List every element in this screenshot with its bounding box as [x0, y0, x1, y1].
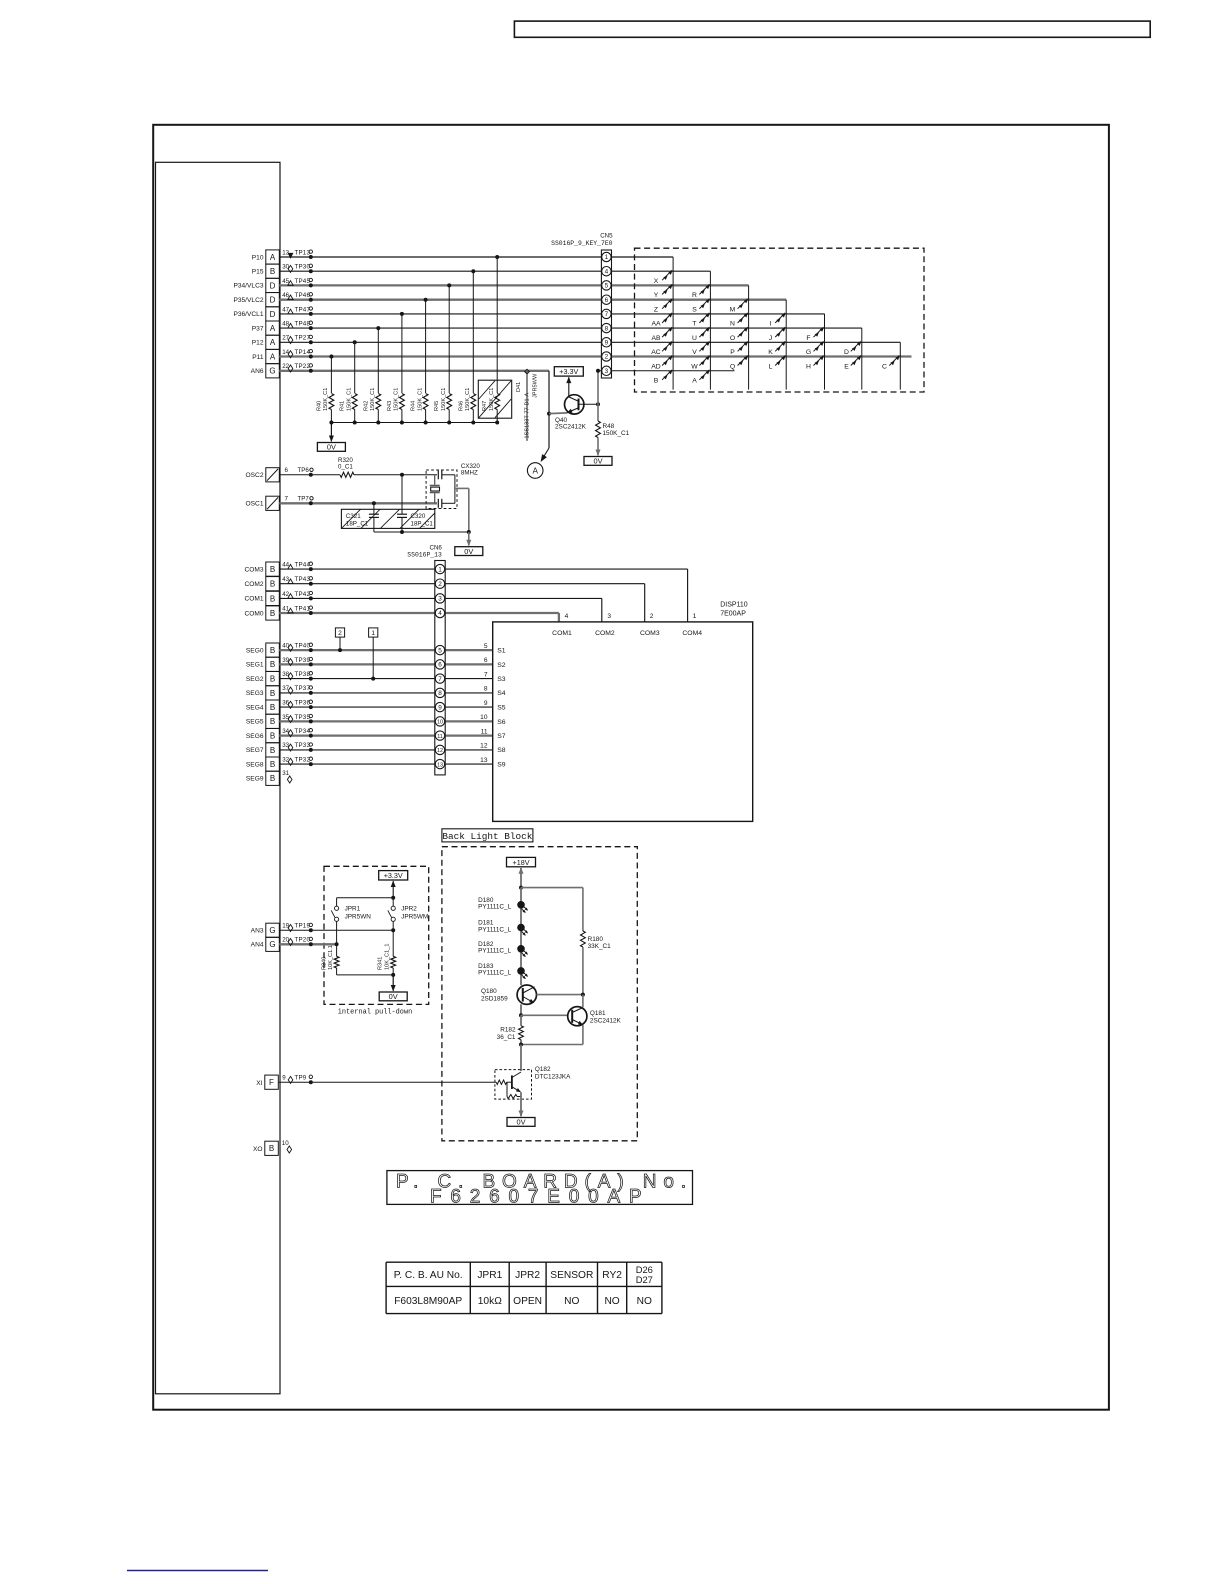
resistor R40 150K_C1 — [329, 394, 334, 410]
key matrix dashed box — [635, 248, 925, 392]
svg-text:X: X — [654, 278, 659, 285]
svg-text:8: 8 — [605, 325, 609, 332]
svg-text:PY1111C_L: PY1111C_L — [478, 904, 511, 911]
svg-text:COM0: COM0 — [244, 610, 263, 617]
CN6 pin 11 — [435, 731, 444, 740]
svg-text:TP48: TP48 — [295, 321, 311, 328]
wire base Q181 — [521, 1014, 568, 1016]
svg-text:4: 4 — [605, 268, 609, 275]
svg-text:TP42: TP42 — [295, 591, 311, 598]
svg-text:G: G — [806, 349, 811, 356]
svg-text:10K_C1.1: 10K_C1.1 — [328, 945, 334, 970]
svg-text:COM4: COM4 — [682, 630, 702, 637]
svg-text:P12: P12 — [252, 340, 264, 347]
svg-text:150K_C1: 150K_C1 — [465, 388, 471, 411]
LED D181 PY1111C_L — [517, 924, 525, 932]
Q182 transistor element — [511, 1075, 513, 1089]
svg-text:B: B — [270, 746, 275, 755]
capacitor C320 18P_C1 — [401, 475, 403, 514]
internal pull-down dashed box — [324, 866, 429, 1004]
svg-text:B: B — [270, 774, 275, 783]
wire COM0 — [279, 612, 559, 614]
wire drop from P11 — [329, 355, 333, 359]
wire drop from P37 — [376, 326, 380, 330]
svg-text:R340: R340 — [321, 957, 327, 970]
svg-text:SEG0: SEG0 — [246, 647, 264, 654]
svg-text:A: A — [270, 253, 276, 262]
supply +3.3V (pull-down) — [392, 881, 394, 898]
svg-text:150K_C1: 150K_C1 — [603, 430, 630, 437]
svg-text:4: 4 — [565, 613, 569, 620]
svg-text:R47: R47 — [482, 401, 488, 411]
svg-text:B: B — [270, 609, 275, 618]
supply +18V — [520, 868, 522, 888]
wire AN6 row — [279, 370, 549, 372]
CN6 pin 10 — [435, 717, 444, 726]
key switch AA — [662, 313, 672, 323]
svg-text:9: 9 — [438, 704, 442, 711]
ground 0V (R48) — [597, 438, 599, 456]
svg-text:S: S — [692, 307, 697, 314]
svg-text:F: F — [806, 335, 810, 342]
resistor R47 150K_C1 — [495, 394, 500, 410]
svg-text:G: G — [269, 926, 275, 935]
net tag 1 box — [369, 628, 378, 637]
svg-text:TP35: TP35 — [295, 714, 311, 721]
svg-text:P36/VCL1: P36/VCL1 — [233, 311, 263, 318]
jumper JPR2 / JPR5WM — [392, 898, 394, 906]
crystal CX320 8MHZ dashed box — [426, 470, 457, 509]
svg-text:B: B — [270, 594, 275, 603]
svg-text:150K_C1: 150K_C1 — [441, 388, 447, 411]
wire SEG1 — [279, 663, 492, 665]
CN6 pin 1 — [435, 564, 444, 573]
svg-text:0V: 0V — [327, 443, 336, 452]
svg-text:B: B — [270, 760, 275, 769]
svg-text:AN4: AN4 — [251, 942, 264, 949]
wire left branch — [336, 922, 338, 957]
svg-text:OSC1: OSC1 — [246, 501, 264, 508]
svg-text:2: 2 — [438, 581, 442, 588]
key switch D — [851, 341, 861, 351]
svg-text:SEG2: SEG2 — [246, 676, 264, 683]
svg-text:150K_C1: 150K_C1 — [489, 388, 495, 411]
svg-text:K: K — [768, 349, 773, 356]
svg-text:V: V — [692, 349, 697, 356]
key switch G — [814, 341, 824, 351]
svg-text:SEG4: SEG4 — [246, 704, 264, 711]
svg-text:OPEN: OPEN — [513, 1296, 542, 1307]
svg-text:COM1: COM1 — [244, 596, 263, 603]
svg-text:P34/VLC3: P34/VLC3 — [233, 283, 263, 290]
resistor R46 150K_C1 — [471, 394, 476, 410]
ground 0V (pull-down) — [392, 975, 394, 991]
wire Q180 base to R180 — [537, 994, 583, 996]
wire drop from P35/VLC2 — [424, 298, 428, 302]
key switch M — [738, 299, 748, 309]
svg-text:S8: S8 — [497, 747, 506, 754]
svg-text:D: D — [270, 296, 276, 305]
resistor R48 150K_C1 — [597, 404, 599, 422]
wire drop from P34/VLC3 — [447, 283, 451, 287]
svg-text:TP32: TP32 — [295, 757, 311, 764]
svg-text:S6: S6 — [497, 719, 506, 726]
key switch I — [775, 313, 785, 323]
wire P36/VCL1 row — [279, 313, 824, 315]
svg-text:Z: Z — [654, 307, 658, 314]
svg-text:1SS133T-77-D1-A: 1SS133T-77-D1-A — [525, 393, 531, 439]
svg-text:6: 6 — [285, 467, 289, 474]
wire COM2 — [279, 583, 644, 585]
wire P10 row — [279, 256, 673, 258]
wire SEG5 — [279, 720, 492, 722]
key switch P — [738, 341, 748, 351]
svg-text:TP14: TP14 — [295, 349, 311, 356]
svg-text:SEG3: SEG3 — [246, 690, 264, 697]
svg-text:11: 11 — [437, 734, 443, 740]
svg-text:PY1111C_L: PY1111C_L — [478, 926, 511, 933]
svg-text:B: B — [270, 689, 275, 698]
svg-text:CN5: CN5 — [600, 233, 613, 240]
svg-text:8: 8 — [484, 686, 488, 693]
CN5 pin 3 — [602, 366, 611, 375]
svg-text:150K_C1: 150K_C1 — [394, 388, 400, 411]
svg-text:C321: C321 — [346, 513, 361, 520]
wire pull-down bottom — [337, 974, 394, 976]
svg-text:AN6: AN6 — [251, 368, 264, 375]
CN5 pin 7 — [602, 309, 611, 318]
outer schematic frame — [153, 125, 1109, 1410]
svg-text:TP30: TP30 — [295, 264, 311, 271]
svg-text:P15: P15 — [252, 269, 264, 276]
svg-text:TP19: TP19 — [295, 923, 311, 930]
key switch L — [775, 356, 785, 366]
svg-text:W: W — [691, 363, 698, 370]
wire P15 row — [279, 270, 710, 272]
key switch B — [662, 370, 672, 380]
svg-text:9: 9 — [605, 340, 609, 347]
svg-text:D27: D27 — [636, 1274, 653, 1285]
svg-text:PY1111C_L: PY1111C_L — [478, 970, 511, 977]
configuration table — [385, 1262, 387, 1313]
wire to Q182 — [520, 1045, 522, 1072]
svg-text:+3.3V: +3.3V — [559, 367, 578, 376]
LED D182 PY1111C_L — [517, 945, 525, 953]
svg-text:R43: R43 — [387, 401, 393, 411]
key matrix column 3 wire — [748, 285, 750, 389]
wire SEG4 — [279, 706, 492, 708]
svg-text:COM3: COM3 — [244, 566, 263, 573]
wire Q181 emitter — [582, 1025, 584, 1045]
CN5 pin 9 — [602, 338, 611, 347]
svg-text:0V: 0V — [516, 1118, 525, 1127]
svg-text:R182: R182 — [500, 1026, 516, 1033]
svg-text:18P_C1: 18P_C1 — [411, 521, 434, 528]
wire CN5 pin3 stub down — [597, 371, 599, 404]
svg-text:D41: D41 — [516, 382, 522, 392]
wire P34/VLC3 row — [279, 284, 748, 286]
svg-text:R42: R42 — [363, 401, 369, 411]
svg-text:10kΩ: 10kΩ — [478, 1296, 502, 1307]
resistor R180 33K_C1 — [581, 931, 586, 947]
wire SEG6 — [279, 734, 492, 736]
wire SEG0 — [279, 649, 492, 651]
svg-text:S3: S3 — [497, 676, 506, 683]
svg-text:B: B — [270, 580, 275, 589]
capacitor in CX320 bottom — [437, 499, 439, 508]
wire OSC1 row — [279, 502, 437, 504]
svg-text:C: C — [882, 363, 887, 370]
svg-text:R44: R44 — [411, 401, 417, 411]
svg-text:10: 10 — [282, 1140, 289, 1147]
wire AN3 — [279, 929, 393, 931]
svg-text:Q182: Q182 — [535, 1066, 551, 1073]
CN6 pin 12 — [435, 745, 444, 754]
svg-text:7E00AP: 7E00AP — [720, 611, 746, 618]
svg-text:B: B — [270, 703, 275, 712]
svg-text:TP39: TP39 — [295, 657, 311, 664]
wire drop from P15 — [471, 269, 475, 273]
svg-text:P35/VLC2: P35/VLC2 — [233, 297, 263, 304]
crystal element — [434, 475, 436, 485]
P.C. BOARD(A) No. label box — [387, 1171, 693, 1205]
svg-text:R46: R46 — [458, 401, 464, 411]
svg-text:18P_C1: 18P_C1 — [346, 521, 369, 528]
title box (empty) top — [514, 21, 1150, 37]
hatched box (unused R47) — [478, 380, 511, 418]
svg-text:JPR1: JPR1 — [477, 1270, 502, 1281]
wire AN6 branch down to A — [548, 371, 550, 448]
svg-text:TP13: TP13 — [295, 249, 311, 256]
svg-text:H: H — [806, 363, 811, 370]
CN6 pin 6 — [435, 660, 444, 669]
key switch E — [851, 356, 861, 366]
svg-text:AN3: AN3 — [251, 928, 264, 935]
key switch C — [889, 356, 899, 366]
key matrix column 4 wire — [785, 300, 787, 390]
svg-text:SEG8: SEG8 — [246, 761, 264, 768]
svg-text:B: B — [270, 732, 275, 741]
svg-text:SEG7: SEG7 — [246, 747, 264, 754]
svg-text:S4: S4 — [497, 690, 506, 697]
bottom link line — [127, 1570, 268, 1572]
svg-text:3: 3 — [605, 368, 609, 375]
svg-text:B: B — [270, 675, 275, 684]
resistor R41 150K_C1 — [352, 394, 357, 410]
svg-text:TP40: TP40 — [295, 643, 311, 650]
svg-text:R180: R180 — [588, 936, 604, 943]
LED D183 PY1111C_L — [517, 967, 525, 975]
key switch AD — [662, 356, 672, 366]
svg-text:COM1: COM1 — [552, 630, 572, 637]
svg-text:12: 12 — [480, 743, 488, 750]
svg-text:B: B — [270, 267, 275, 276]
svg-text:TP38: TP38 — [295, 671, 311, 678]
svg-text:R40: R40 — [316, 401, 322, 411]
svg-text:2: 2 — [605, 354, 609, 361]
svg-text:10: 10 — [437, 720, 443, 726]
key switch N — [738, 313, 748, 323]
resistor R44 150K_C1 — [423, 394, 428, 410]
svg-text:D: D — [844, 349, 849, 356]
svg-text:5: 5 — [484, 643, 488, 650]
svg-text:COM3: COM3 — [640, 630, 660, 637]
svg-text:R: R — [692, 292, 697, 299]
svg-text:TP7: TP7 — [298, 495, 310, 502]
wire P11 row — [279, 355, 911, 357]
svg-text:JPR5WM: JPR5WM — [401, 914, 428, 921]
svg-text:8: 8 — [438, 690, 442, 697]
svg-text:0V: 0V — [389, 992, 398, 1001]
svg-text:TP36: TP36 — [295, 700, 311, 707]
wire LED chain — [520, 888, 522, 986]
CN5 pin 2 — [602, 352, 611, 361]
svg-text:1: 1 — [693, 613, 697, 620]
svg-text:36_C1: 36_C1 — [497, 1034, 516, 1041]
svg-text:TP37: TP37 — [295, 685, 311, 692]
diode D41 1SS133T-77-D1-A / JPR5WW (unstuffed) — [526, 372, 528, 441]
svg-text:JPR1: JPR1 — [345, 906, 361, 913]
svg-text:6: 6 — [438, 662, 442, 669]
wire SEG3 — [279, 692, 492, 694]
svg-text:B: B — [269, 1144, 274, 1153]
CN6 pin 9 — [435, 702, 444, 711]
resistor R341 10K_C1_1 — [391, 956, 396, 968]
svg-text:CN6: CN6 — [430, 544, 443, 551]
svg-text:Q181: Q181 — [590, 1010, 606, 1017]
svg-text:J: J — [769, 335, 772, 342]
svg-text:NO: NO — [564, 1296, 579, 1307]
key switch V — [699, 341, 709, 351]
svg-text:S7: S7 — [497, 733, 506, 740]
ground 0V (oscillator) — [468, 532, 470, 546]
hatched box (unused C321 C320) — [341, 509, 434, 528]
wire P12 row — [279, 341, 900, 343]
transistor Q180 2SD1859 — [517, 985, 536, 1004]
svg-text:COM2: COM2 — [244, 581, 263, 588]
svg-text:P37: P37 — [252, 325, 264, 332]
key switch AB — [662, 327, 672, 337]
svg-text:R45: R45 — [434, 401, 440, 411]
ground 0V (back light) — [520, 1108, 522, 1116]
svg-text:10K_C1_1: 10K_C1_1 — [385, 944, 391, 970]
ground bus under resistor ladder — [331, 422, 497, 424]
wire Q40 base to R48 node — [579, 403, 599, 405]
CN6 pin 4 — [435, 608, 444, 617]
svg-text:O: O — [730, 335, 735, 342]
svg-text:TP22: TP22 — [295, 363, 311, 370]
svg-text:SS016P_13: SS016P_13 — [407, 552, 442, 559]
svg-text:AD: AD — [651, 363, 661, 370]
resistor R182 36_C1 — [520, 1015, 522, 1025]
key switch R — [699, 284, 709, 294]
Back Light Block label — [442, 829, 533, 842]
svg-text:F: F — [269, 1078, 274, 1087]
transistor Q40 2SC2412K — [565, 395, 584, 414]
resistor R42 150K_C1 — [376, 394, 381, 410]
svg-text:11: 11 — [481, 728, 488, 735]
wire pull-up top — [337, 897, 394, 899]
key switch H — [814, 356, 824, 366]
svg-text:2SC2412K: 2SC2412K — [555, 424, 587, 431]
svg-text:F62607E00AP: F62607E00AP — [430, 1187, 650, 1208]
svg-text:M: M — [730, 307, 736, 314]
node A circle — [527, 463, 543, 479]
svg-text:3: 3 — [607, 613, 611, 620]
svg-text:SEG9: SEG9 — [246, 776, 264, 783]
key switch S — [699, 299, 709, 309]
wire drop from P10 — [495, 255, 499, 259]
net tag 2 box — [335, 628, 344, 637]
resistor R45 150K_C1 — [447, 394, 452, 410]
key switch T — [699, 313, 709, 323]
svg-text:DISP110: DISP110 — [720, 602, 748, 609]
svg-text:P. C. B. AU No.: P. C. B. AU No. — [394, 1270, 463, 1281]
svg-text:0V: 0V — [464, 547, 473, 556]
svg-text:150K_C1: 150K_C1 — [323, 388, 329, 411]
svg-text:1: 1 — [605, 254, 609, 261]
wire Q181 collector — [582, 995, 584, 1008]
svg-text:1: 1 — [438, 566, 442, 573]
svg-text:2: 2 — [650, 613, 654, 620]
svg-text:5: 5 — [605, 283, 609, 290]
key matrix column 5 wire — [824, 314, 826, 390]
svg-text:RY2: RY2 — [602, 1270, 622, 1281]
svg-text:6: 6 — [484, 657, 488, 664]
svg-text:Y: Y — [654, 292, 659, 299]
svg-text:150K_C1: 150K_C1 — [370, 388, 376, 411]
svg-text:R41: R41 — [340, 401, 346, 411]
wire XI to Q182 base — [278, 1081, 496, 1083]
key matrix column 7 wire — [899, 342, 901, 389]
CN5 pin 4 — [602, 267, 611, 276]
svg-text:AA: AA — [651, 321, 661, 328]
key switch J — [775, 327, 785, 337]
key matrix column 6 wire — [861, 328, 863, 390]
wire Q182 emitter down — [520, 1092, 522, 1108]
IC block (microcontroller) outline — [156, 162, 281, 1394]
svg-text:NO: NO — [604, 1296, 619, 1307]
svg-text:B: B — [270, 646, 275, 655]
key switch Y — [662, 284, 672, 294]
svg-text:SS016P_9_KEY_7E0: SS016P_9_KEY_7E0 — [551, 240, 613, 247]
svg-text:TP47: TP47 — [295, 306, 311, 313]
svg-text:B: B — [270, 565, 275, 574]
svg-text:D: D — [270, 310, 276, 319]
wire COM1 — [279, 597, 602, 599]
svg-text:S9: S9 — [497, 762, 506, 769]
svg-text:7: 7 — [438, 676, 442, 683]
svg-text:4: 4 — [438, 610, 442, 617]
svg-text:TP44: TP44 — [295, 562, 311, 569]
svg-text:U: U — [692, 335, 697, 342]
svg-text:TP45: TP45 — [295, 278, 311, 285]
svg-text:SEG1: SEG1 — [246, 662, 264, 669]
svg-text:S2: S2 — [497, 662, 506, 669]
svg-text:JPR2: JPR2 — [401, 906, 417, 913]
svg-text:TP27: TP27 — [295, 335, 311, 342]
transistor Q182 DTC123JKA dashed box — [495, 1070, 532, 1100]
svg-text:NO: NO — [637, 1296, 652, 1307]
wire P35/VLC2 row — [279, 299, 786, 301]
wire SEG2 — [279, 678, 492, 680]
svg-text:0_C1: 0_C1 — [338, 464, 353, 471]
svg-text:+18V: +18V — [513, 858, 530, 867]
svg-text:A: A — [692, 378, 697, 385]
ground 0V (resistor ladder) — [330, 423, 332, 442]
svg-text:2SC2412K: 2SC2412K — [590, 1017, 622, 1024]
key switch X — [662, 270, 672, 280]
